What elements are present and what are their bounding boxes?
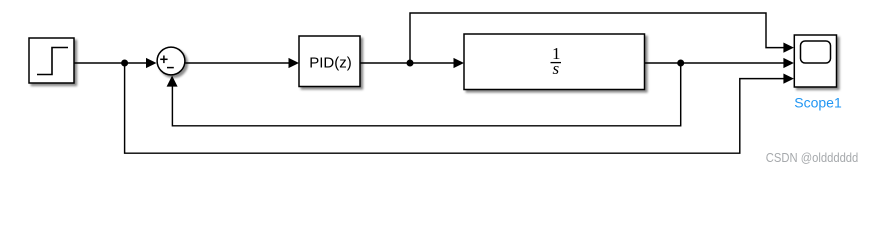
arrowhead into Sum left input bbox=[146, 58, 157, 68]
wire: Sum output to PID(z) input bbox=[186, 62, 291, 64]
fraction bar of 1/s bbox=[551, 62, 562, 64]
arrowhead into Scope input 1 bbox=[783, 43, 794, 53]
wire: feedback from Integrator output tap to Sum bottom input bbox=[172, 63, 680, 126]
junction node: PID output tap bbox=[407, 60, 414, 67]
svg-text:PID(z): PID(z) bbox=[309, 54, 352, 71]
svg-text:Scope1: Scope1 bbox=[794, 95, 842, 111]
junction node: Step output tap bbox=[121, 60, 128, 67]
junction node: Integrator output tap bbox=[677, 60, 684, 67]
integrator block 1/s bbox=[464, 34, 645, 90]
arrowhead into Scope input 2 bbox=[783, 58, 794, 68]
scope block Scope1 bbox=[794, 35, 836, 87]
svg-text:s: s bbox=[552, 59, 559, 78]
wire: PID output tap up and over to Scope input 1 bbox=[410, 13, 785, 63]
wire: Integrator output to Scope input 2 bbox=[645, 62, 786, 64]
wire: Step output tap down and around to Scope input 3 bbox=[125, 63, 785, 153]
arrowhead into Integrator input bbox=[454, 58, 465, 68]
scope screen icon bbox=[801, 41, 831, 63]
sum block Sum (circle) bbox=[157, 47, 185, 75]
arrowhead into PID(z) input bbox=[289, 58, 300, 68]
svg-text:CSDN @oldddddd: CSDN @oldddddd bbox=[766, 151, 859, 165]
wire: PID(z) output to Integrator input bbox=[360, 62, 455, 64]
step icon inside Step block bbox=[37, 48, 68, 75]
arrowhead into Scope input 3 bbox=[783, 74, 794, 84]
plus sign of Sum bbox=[160, 56, 167, 64]
minus sign of Sum bbox=[167, 67, 174, 69]
PID controller block PID(z) bbox=[299, 36, 360, 87]
arrowhead into Sum bottom input bbox=[167, 76, 178, 87]
wire: Step output to Sum left input bbox=[74, 62, 147, 64]
step source block Step bbox=[29, 38, 74, 83]
